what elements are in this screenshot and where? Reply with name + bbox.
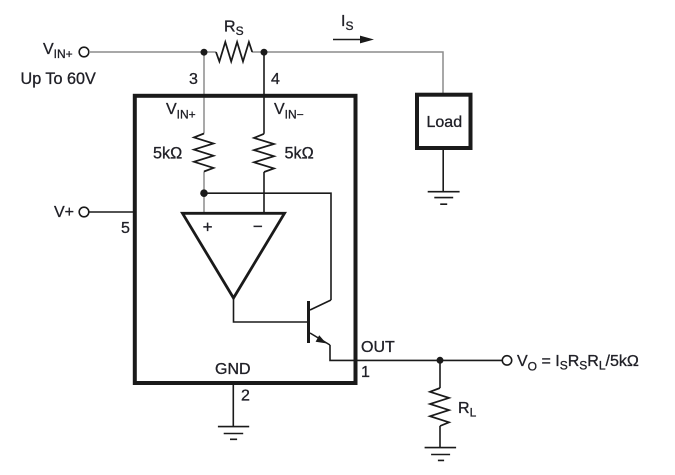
svg-text:5kΩ: 5kΩ [153,145,182,163]
wire pin4 vertical [263,52,265,134]
svg-text:3: 3 [189,71,198,88]
svg-text:Load: Load [427,114,463,131]
svg-text:OUT: OUT [361,339,395,356]
node joining 5k left and op-amp + input [200,189,208,197]
node at RL junction [437,357,444,364]
node at pin4 top [261,49,268,56]
wire V+ to box [89,211,133,213]
svg-text:5kΩ: 5kΩ [285,145,314,163]
svg-text:V+: V+ [54,204,74,221]
wire OUT to terminal [357,359,502,361]
wire op-amp output to transistor base [234,298,308,322]
resistor 5k left [194,134,214,172]
transistor Q1 base bar [307,301,310,343]
wire emitter to OUT [330,345,357,360]
svg-text:2: 2 [241,388,250,405]
wire node to op-amp + [203,193,205,213]
wire node to RL [439,360,441,388]
wire RS to Load corner (gray) [252,52,443,93]
ground Load [428,192,460,205]
transistor emitter [310,333,330,345]
svg-text:5: 5 [121,220,130,237]
node at pin3 top [201,49,208,56]
resistor RL [430,388,449,426]
ground RL [425,448,457,461]
terminal V+ circle [79,207,89,217]
wire pin2 [232,385,234,427]
feedback wire node to collector [204,193,331,300]
svg-text:−: − [253,217,263,236]
transistor collector [310,300,331,310]
resistor 5k right [254,134,274,172]
Load box [417,95,471,148]
op-amp U1 [183,213,285,298]
emitter arrowhead [316,335,327,343]
wire RL to ground [439,426,441,448]
terminal VO circle [502,356,511,365]
terminal VIN+ circle [79,47,89,57]
svg-text:1: 1 [361,364,370,381]
IC box [135,96,356,383]
ground pin2 [218,427,249,440]
svg-text:4: 4 [271,71,280,88]
wire pin3 vertical (gray) [203,52,205,134]
resistor RS [216,42,252,62]
IS current arrow [333,39,361,41]
svg-text:Up To 60V: Up To 60V [21,70,96,88]
wire Load to ground [442,150,444,192]
wire VIN+ to RS (gray) [89,51,216,53]
svg-text:GND: GND [215,361,251,378]
svg-text:+: + [203,217,213,236]
